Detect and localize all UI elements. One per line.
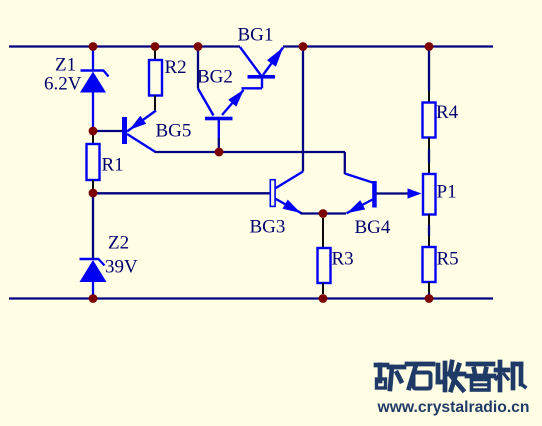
svg-text:Z1: Z1 (55, 55, 76, 76)
wire (154, 48, 156, 60)
svg-text:R1: R1 (102, 155, 124, 176)
wire (428, 236, 430, 247)
wire (97, 192, 271, 194)
node bottom-R5 (425, 294, 434, 303)
wire (218, 138, 220, 152)
wire (428, 215, 430, 226)
svg-text:BG2: BG2 (197, 67, 233, 88)
transistor BG2 (198, 89, 244, 140)
wire (283, 45, 493, 47)
resistor R3 (318, 248, 331, 283)
wire (219, 151, 345, 153)
wire (92, 135, 94, 144)
wire (322, 218, 324, 248)
wiper arrow of P1 (408, 188, 422, 198)
wire (428, 163, 430, 174)
resistor R2 (149, 60, 162, 96)
svg-text:P1: P1 (437, 182, 457, 203)
node Z1-R1-BG5 (89, 127, 98, 136)
wire (155, 151, 220, 153)
wire (377, 192, 409, 194)
wire (323, 212, 346, 214)
node top-BG3 (299, 42, 308, 51)
watermark logo (376, 362, 525, 390)
wire (92, 196, 94, 259)
svg-text:BG4: BG4 (355, 217, 391, 238)
svg-text:Z2: Z2 (108, 233, 129, 254)
node R1-BG3base (89, 189, 98, 198)
wire (97, 130, 122, 132)
node top-Z1 (89, 42, 98, 51)
wire (9, 297, 493, 299)
transistor BG4 (345, 174, 377, 214)
svg-text:6.2V: 6.2V (44, 74, 82, 95)
node BG5c-BG2b-BG4c (215, 148, 224, 157)
transistor BG5 (122, 111, 156, 153)
transistor BG3 (270, 172, 303, 214)
wire (302, 47, 304, 172)
wire (428, 48, 430, 91)
svg-text:R3: R3 (332, 249, 354, 270)
node top-R2 (151, 42, 160, 51)
node emitters-R3 (319, 209, 328, 218)
wire (92, 180, 94, 190)
svg-text:R5: R5 (437, 249, 459, 270)
svg-text:www.crystalradio.cn: www.crystalradio.cn (377, 399, 530, 416)
node bottom-Z2 (89, 294, 98, 303)
wire (154, 96, 156, 111)
wire (428, 91, 430, 103)
node bottom-R3 (319, 294, 328, 303)
wire (301, 212, 324, 214)
resistor R4 (423, 103, 436, 138)
zener diode Z1 (80, 47, 109, 128)
svg-text:R2: R2 (165, 57, 187, 78)
potentiometer P1 (423, 174, 436, 215)
resistor R1 (87, 144, 100, 180)
wire (322, 283, 324, 294)
wire (428, 225, 430, 236)
wire (428, 149, 430, 163)
node top-BG2 (194, 42, 203, 51)
wire (9, 45, 240, 47)
zener diode Z2 (80, 259, 107, 296)
wire (428, 138, 430, 150)
svg-text:BG5: BG5 (156, 121, 192, 142)
wire (197, 48, 199, 89)
svg-text:BG1: BG1 (238, 25, 274, 46)
transistor BG1 (240, 47, 283, 88)
svg-text:39V: 39V (105, 257, 138, 278)
node top-R4 (425, 42, 434, 51)
wire (344, 152, 346, 174)
wire (428, 282, 430, 293)
resistor R5 (423, 247, 436, 282)
svg-text:BG3: BG3 (250, 217, 286, 238)
svg-text:R4: R4 (436, 102, 459, 123)
wire (428, 293, 430, 297)
